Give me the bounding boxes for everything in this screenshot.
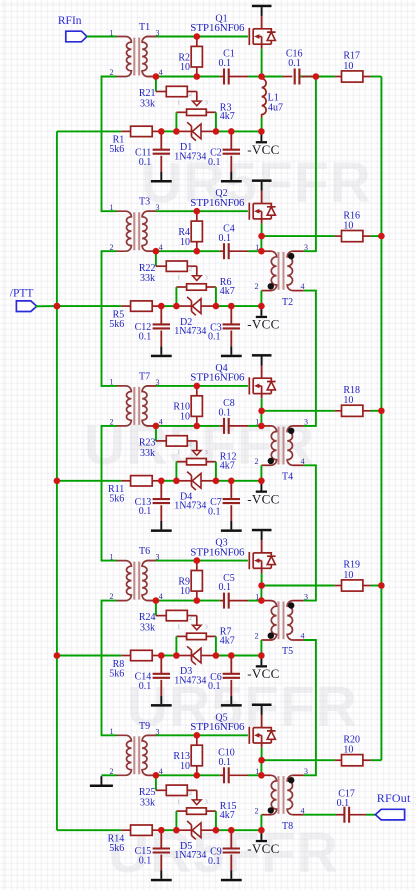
svg-text:2: 2 (255, 282, 259, 291)
wire bias row (57, 480, 121, 482)
node source of Q5 (258, 757, 265, 764)
svg-text:-VCC: -VCC (247, 317, 279, 332)
resistor R19 10 feedback (261, 560, 381, 591)
node trimmer right leg (213, 128, 220, 135)
resistor R4 10 (178, 211, 202, 251)
node -VCC rail (258, 478, 265, 485)
resistor R18 10 feedback (261, 385, 381, 416)
ground (151, 346, 172, 357)
node trimmer left leg (173, 303, 180, 310)
svg-text:1N4734: 1N4734 (174, 326, 206, 337)
wire left bias bus (56, 131, 58, 830)
transistor Q5 (190, 704, 275, 744)
node trimmer right leg (213, 303, 220, 310)
ground (151, 521, 172, 532)
svg-text:2: 2 (255, 457, 259, 466)
transformer T2 (255, 243, 309, 308)
svg-text:4: 4 (159, 243, 163, 252)
wire trimmer right leg (215, 287, 217, 306)
resistor R24 33k (139, 601, 197, 634)
svg-text:10: 10 (180, 412, 190, 423)
node left bias bus (54, 478, 61, 485)
wire RFIn to T1.1 (87, 36, 117, 38)
zener diode D5 1N4734 (174, 821, 216, 861)
svg-text:33k: 33k (140, 273, 155, 284)
svg-text:5k6: 5k6 (109, 319, 124, 330)
svg-text:3: 3 (156, 378, 160, 387)
flag RFIn (58, 15, 117, 42)
wire gate row (156, 36, 248, 38)
wire MOSFET source lead (261, 394, 263, 399)
svg-text:10: 10 (180, 237, 190, 248)
svg-text:T3: T3 (139, 197, 150, 208)
svg-text:1N4734: 1N4734 (174, 675, 206, 686)
svg-text:5k6: 5k6 (109, 843, 124, 854)
resistor R9 10 (178, 561, 202, 601)
svg-text:2: 2 (255, 632, 259, 641)
svg-text:0.1: 0.1 (208, 506, 221, 517)
wire T pin2 to -VCC junction (260, 640, 262, 656)
svg-text:2: 2 (110, 68, 114, 77)
svg-text:2: 2 (189, 616, 192, 622)
svg-text:R25: R25 (139, 787, 156, 798)
svg-text:0.1: 0.1 (139, 332, 152, 343)
transformer T4 (255, 418, 309, 483)
svg-text:2: 2 (189, 441, 192, 447)
svg-text:3: 3 (156, 29, 160, 38)
resistor R25 33k (139, 775, 197, 808)
wire source row (156, 250, 220, 252)
svg-text:3: 3 (304, 767, 308, 776)
wire source row (156, 76, 220, 78)
junction /PTT node (54, 303, 61, 310)
svg-text:R24: R24 (139, 612, 156, 623)
node gate of Q4 (194, 383, 201, 390)
node gate of Q3 (194, 557, 201, 564)
svg-text:5k6: 5k6 (109, 668, 124, 679)
capacitor C9 0.1 bypass (208, 830, 240, 870)
svg-text:1: 1 (110, 552, 114, 561)
svg-text:10: 10 (343, 395, 353, 406)
resistor R1 5k6 (109, 126, 161, 155)
svg-text:1: 1 (177, 625, 180, 631)
wire T5.4 down to T8.3 (304, 640, 316, 775)
wire trimmer left leg (175, 636, 177, 655)
node bypass cap left (158, 303, 165, 310)
node bypass cap right (228, 128, 235, 135)
svg-text:10: 10 (180, 761, 190, 772)
wire trimmer left leg (175, 287, 177, 306)
node bypass cap right (228, 478, 235, 485)
resistor R21 33k (139, 77, 197, 110)
capacitor C17 0.1 output (304, 788, 376, 822)
svg-text:1N4734: 1N4734 (174, 151, 206, 162)
svg-text:RFIn: RFIn (58, 15, 82, 27)
svg-text:3: 3 (156, 203, 160, 212)
node trimmer right leg (213, 652, 220, 659)
wire T4.4 down to T5.3 (304, 465, 316, 600)
svg-text:4: 4 (301, 282, 305, 291)
node right bus (378, 233, 385, 240)
wire MOSFET source lead (261, 568, 263, 573)
svg-text:STP16NF06: STP16NF06 (190, 22, 245, 34)
wire trimmer left leg (175, 112, 177, 131)
wire transformer-link bus T1.2-T3.1 (102, 77, 117, 212)
svg-text:4k7: 4k7 (220, 461, 235, 472)
svg-text:R21: R21 (139, 88, 156, 99)
wire T pin2 to -VCC junction (260, 465, 262, 481)
flag /PTT (10, 287, 60, 311)
svg-text:-VCC: -VCC (247, 841, 279, 856)
power -VCC (247, 306, 279, 332)
wire trimmer left leg (175, 462, 177, 481)
resistor R16 10 feedback (261, 210, 381, 241)
resistor R2 10 (178, 37, 202, 77)
svg-text:3: 3 (304, 243, 308, 252)
wire T2.4 down to T4.3 (304, 291, 316, 426)
node bypass cap left (158, 128, 165, 135)
svg-text:1: 1 (177, 450, 180, 456)
wire source junction to T pin1 (260, 236, 262, 251)
wire pin stub T pin3 (147, 734, 156, 736)
svg-text:5k6: 5k6 (109, 494, 124, 505)
node source of Q1 (258, 73, 265, 80)
wire gate row (156, 385, 248, 387)
svg-text:R23: R23 (139, 438, 156, 449)
wire pin stub T pin3 (147, 560, 156, 562)
wire right feedback bus (380, 77, 382, 761)
svg-text:3: 3 (304, 418, 308, 427)
ground (221, 696, 242, 707)
svg-text:STP16NF06: STP16NF06 (190, 197, 245, 209)
capacitor C3 0.1 bypass (208, 306, 240, 346)
svg-text:1: 1 (177, 275, 180, 281)
wire source row (156, 774, 220, 776)
svg-text:3: 3 (156, 727, 160, 736)
svg-text:3: 3 (205, 275, 208, 281)
node bypass cap right (228, 827, 235, 834)
power -VCC (247, 131, 279, 157)
transformer T6 (110, 546, 163, 601)
capacitor C6 0.1 bypass (208, 656, 240, 696)
ground (221, 346, 242, 357)
node source of Q4 (258, 408, 265, 415)
svg-text:0.1: 0.1 (208, 332, 221, 343)
node 33k tap (153, 423, 160, 430)
capacitor C7 0.1 bypass (208, 481, 240, 521)
svg-text:0.1: 0.1 (337, 798, 350, 809)
node bypass cap left (158, 652, 165, 659)
node gate of Q5 (194, 732, 201, 739)
capacitor C2 0.1 bypass (208, 131, 240, 171)
node bypass cap right (228, 303, 235, 310)
VCC power bar of Q4 (252, 354, 272, 357)
transformer T7 (110, 371, 163, 426)
node gate resistor bottom (194, 772, 201, 779)
trimmer potentiometer R15 4k7 (176, 790, 236, 830)
svg-text:STP16NF06: STP16NF06 (190, 372, 245, 384)
node right bus (378, 582, 385, 589)
power -VCC (247, 481, 279, 507)
svg-text:10: 10 (180, 62, 190, 73)
svg-text:4u7: 4u7 (268, 102, 283, 113)
transformer T9 (110, 721, 163, 776)
wire source row (156, 600, 220, 602)
node gate resistor bottom (194, 423, 201, 430)
node gate resistor bottom (194, 597, 201, 604)
resistor R20 10 feedback (261, 734, 381, 765)
svg-text:2: 2 (110, 418, 114, 427)
node trimmer left leg (173, 652, 180, 659)
trimmer potentiometer R12 4k7 (176, 441, 236, 481)
svg-text:3: 3 (205, 450, 208, 456)
node transformer primary pin1 (258, 423, 265, 430)
node gate resistor bottom (194, 248, 201, 255)
node source of Q2 (258, 233, 265, 240)
svg-text:RFOut: RFOut (377, 791, 411, 805)
svg-text:0.1: 0.1 (139, 856, 152, 867)
wire source junction to T pin1 (260, 760, 262, 775)
wire bias row (57, 305, 121, 307)
svg-text:4k7: 4k7 (220, 810, 235, 821)
wire pin stub T pin3 (147, 210, 156, 212)
transformer T3 (110, 197, 163, 252)
wire source junction to T pin1 (260, 411, 262, 426)
resistor R22 33k (139, 251, 197, 284)
node bypass cap left (158, 478, 165, 485)
svg-text:3: 3 (156, 553, 160, 562)
node transformer primary pin1 (258, 772, 265, 779)
wire transformer-link bus T6.2-T6.1 (102, 426, 117, 561)
svg-text:3: 3 (304, 592, 308, 601)
ground (151, 172, 172, 183)
transistor Q4 (190, 354, 275, 394)
wire pin stub T pin3 (147, 36, 156, 38)
wire MOSFET source lead (261, 44, 263, 49)
svg-text:33k: 33k (140, 797, 155, 808)
svg-text:1N4734: 1N4734 (174, 501, 206, 512)
svg-text:4: 4 (301, 632, 305, 641)
ground (151, 870, 172, 881)
wire trimmer right leg (215, 112, 217, 131)
svg-text:T6: T6 (139, 546, 150, 557)
svg-text:0.1: 0.1 (219, 233, 232, 244)
svg-text:3: 3 (205, 101, 208, 107)
VCC power bar of Q1 (252, 5, 272, 8)
svg-text:4k7: 4k7 (220, 111, 235, 122)
node -VCC rail (258, 652, 265, 659)
node -VCC rail (258, 303, 265, 310)
svg-text:-VCC: -VCC (247, 666, 279, 681)
svg-text:33k: 33k (140, 623, 155, 634)
transformer T1 (110, 22, 163, 77)
svg-text:1: 1 (177, 101, 180, 107)
svg-text:T4: T4 (282, 472, 293, 483)
zener diode D4 1N4734 (174, 472, 216, 512)
svg-text:4: 4 (159, 592, 163, 601)
trimmer potentiometer R7 4k7 (176, 616, 234, 656)
svg-text:0.1: 0.1 (219, 582, 232, 593)
svg-text:STP16NF06: STP16NF06 (190, 721, 245, 733)
svg-text:2: 2 (189, 92, 192, 98)
resistor R17 10 feedback (300, 51, 381, 82)
wire gate row (156, 734, 248, 736)
svg-text:1: 1 (110, 378, 114, 387)
svg-text:2: 2 (255, 806, 259, 815)
svg-text:2: 2 (110, 243, 114, 252)
node -VCC rail (258, 827, 265, 834)
zener diode D2 1N4734 (174, 297, 216, 337)
capacitor C1 0.1 coupling (219, 49, 262, 85)
transistor Q3 (190, 529, 275, 569)
wire pin stub T pin3 (147, 385, 156, 387)
transformer T8 (255, 767, 309, 832)
ground (151, 696, 172, 707)
svg-text:0.1: 0.1 (139, 506, 152, 517)
node C16 output (313, 73, 320, 80)
transistor Q2 (190, 179, 275, 219)
resistor R11 5k6 (108, 476, 161, 505)
ground (221, 172, 242, 183)
node bypass cap right (228, 652, 235, 659)
node trimmer left leg (173, 128, 180, 135)
ground (221, 870, 242, 881)
svg-text:4: 4 (301, 457, 305, 466)
resistor R14 5k6 (108, 825, 162, 854)
VCC power bar of Q2 (252, 179, 272, 182)
svg-text:33k: 33k (140, 448, 155, 459)
svg-text:2: 2 (189, 791, 192, 797)
svg-text:T7: T7 (139, 371, 150, 382)
wire trimmer right leg (215, 462, 217, 481)
svg-text:10: 10 (343, 570, 353, 581)
svg-text:0.1: 0.1 (208, 856, 221, 867)
svg-text:0.1: 0.1 (208, 157, 221, 168)
svg-text:-VCC: -VCC (247, 142, 279, 157)
capacitor C8 0.1 coupling (219, 398, 262, 434)
capacitor C10 0.1 coupling (218, 748, 261, 784)
capacitor C13 0.1 bypass (135, 481, 170, 521)
wire C16 output down to T2.3 (304, 77, 316, 252)
svg-text:T5: T5 (282, 646, 293, 657)
svg-text:T9: T9 (139, 721, 150, 732)
node 33k tap (153, 772, 160, 779)
wire /PTT to bias bus (35, 305, 57, 307)
svg-text:R22: R22 (139, 263, 156, 274)
svg-text:/PTT: /PTT (10, 287, 34, 299)
wire bias row (57, 829, 121, 831)
capacitor C11 0.1 bypass (135, 131, 170, 171)
svg-text:T2: T2 (282, 297, 293, 308)
wire MOSFET source lead (261, 743, 263, 748)
svg-text:T8: T8 (282, 821, 293, 832)
wire bias row (57, 130, 121, 132)
inductor L1 4u7 (262, 77, 283, 132)
svg-text:4: 4 (159, 68, 163, 77)
wire source row (156, 425, 220, 427)
svg-text:4k7: 4k7 (220, 635, 235, 646)
svg-text:T1: T1 (139, 22, 150, 33)
trimmer potentiometer R6 4k7 (176, 266, 234, 306)
svg-text:1: 1 (110, 203, 114, 212)
resistor R13 10 (173, 735, 202, 775)
svg-text:3: 3 (205, 799, 208, 805)
wire trimmer right leg (215, 811, 217, 830)
svg-text:4: 4 (159, 418, 163, 427)
node right bus (378, 408, 385, 415)
wire T pin2 to -VCC junction (260, 291, 262, 307)
svg-text:0.1: 0.1 (219, 757, 232, 768)
node left bias bus (54, 303, 61, 310)
svg-text:1N4734: 1N4734 (174, 850, 206, 861)
power -VCC (247, 656, 279, 682)
capacitor C4 0.1 coupling (219, 223, 262, 259)
svg-text:0.1: 0.1 (288, 58, 301, 69)
VCC power bar of Q5 (252, 704, 272, 707)
svg-text:2: 2 (110, 592, 114, 601)
svg-text:3: 3 (205, 625, 208, 631)
svg-text:0.1: 0.1 (219, 408, 232, 419)
svg-text:0.1: 0.1 (208, 681, 221, 692)
svg-text:10: 10 (343, 61, 353, 72)
transistor Q1 (190, 5, 275, 45)
svg-text:1: 1 (110, 727, 114, 736)
transformer T5 (255, 592, 309, 657)
node transformer primary pin1 (258, 248, 265, 255)
node trimmer right leg (213, 478, 220, 485)
wire transformer-link bus T3.2-T7.1 (102, 251, 117, 386)
wire MOSFET source lead (261, 219, 263, 224)
svg-text:0.1: 0.1 (219, 58, 232, 69)
node 33k tap (153, 73, 160, 80)
svg-text:4k7: 4k7 (220, 286, 235, 297)
node trimmer left leg (173, 827, 180, 834)
ground (221, 521, 242, 532)
ground T9 pin2 (90, 775, 117, 787)
node transformer primary pin1 (258, 597, 265, 604)
wire source junction to T pin1 (260, 586, 262, 601)
VCC power bar of Q3 (252, 529, 272, 532)
wire trimmer right leg (215, 636, 217, 655)
resistor R8 5k6 (109, 650, 161, 679)
svg-text:-VCC: -VCC (247, 491, 279, 506)
capacitor C16 0.1 (262, 49, 316, 85)
node bypass cap left (158, 827, 165, 834)
svg-text:33k: 33k (140, 99, 155, 110)
wire bias row (57, 655, 121, 657)
trimmer potentiometer R3 4k7 (176, 92, 234, 132)
capacitor C15 0.1 bypass (135, 830, 170, 870)
svg-text:2: 2 (189, 267, 192, 273)
svg-text:0.1: 0.1 (139, 681, 152, 692)
zener diode D3 1N4734 (174, 646, 216, 686)
resistor R5 5k6 (109, 301, 161, 330)
svg-text:1: 1 (177, 799, 180, 805)
node gate of Q2 (194, 208, 201, 215)
capacitor C5 0.1 coupling (219, 573, 262, 609)
zener diode D1 1N4734 (174, 122, 216, 162)
capacitor C12 0.1 bypass (135, 306, 170, 346)
svg-text:STP16NF06: STP16NF06 (190, 546, 245, 558)
capacitor C14 0.1 bypass (135, 656, 170, 696)
node source of Q3 (258, 582, 265, 589)
node gate of Q1 (194, 33, 201, 40)
node -VCC rail (258, 128, 265, 135)
node 33k tap (153, 597, 160, 604)
wire transformer-link bus T6.2-T9.1 (102, 601, 117, 736)
svg-text:10: 10 (180, 586, 190, 597)
svg-text:5k6: 5k6 (109, 144, 124, 155)
